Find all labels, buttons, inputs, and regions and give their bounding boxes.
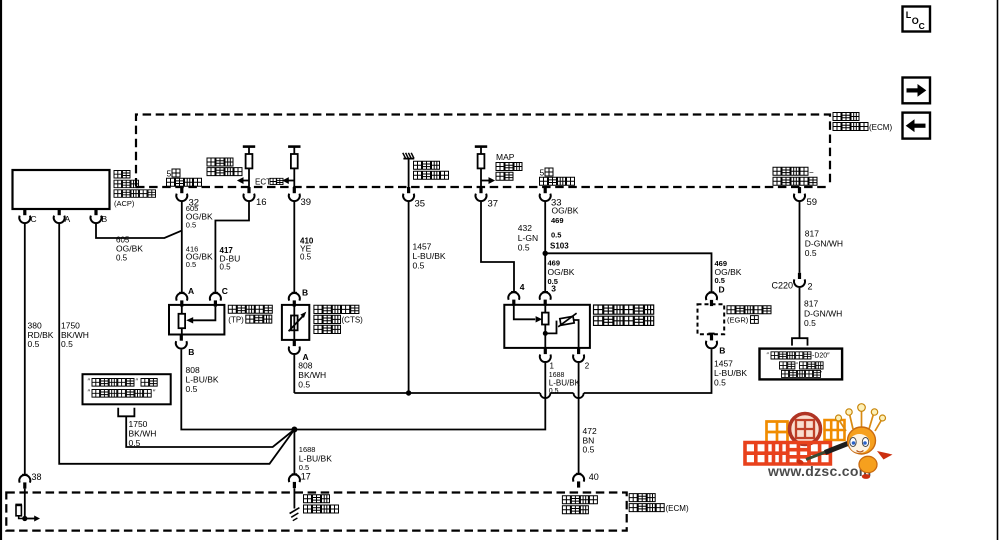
- CTS terminal B: [289, 288, 308, 307]
- MAP pressure resistor: [542, 306, 549, 348]
- svg-text:B: B: [302, 288, 308, 298]
- watermark dzsc logo: [745, 404, 893, 479]
- svg-text:808: 808: [298, 361, 312, 371]
- svg-text:0.5: 0.5: [714, 378, 726, 388]
- label 817 D-GN/WH 0.5 (lower): [804, 299, 842, 329]
- TP wiper arrow: [186, 307, 215, 324]
- ECM module bottom dashed boundary: [6, 493, 626, 531]
- svg-text:0.5: 0.5: [300, 253, 312, 262]
- svg-text:16: 16: [256, 197, 267, 208]
- TP terminal A: [176, 286, 194, 307]
- label 605 OG/BK 0.5 (upper): [186, 204, 213, 229]
- MAP internal node: [543, 331, 548, 336]
- svg-text:A: A: [188, 286, 194, 296]
- wire 1457 L-BU/BK from terminal 35: [408, 202, 410, 393]
- label combination meter text: [88, 379, 158, 398]
- svg-text:OG/BK: OG/BK: [548, 267, 575, 277]
- bracket under box: [118, 408, 134, 417]
- svg-text:0.5: 0.5: [805, 248, 817, 258]
- svg-text:0.5: 0.5: [551, 231, 561, 240]
- ECM terminal 40: [573, 472, 599, 488]
- svg-text:0.5: 0.5: [116, 254, 128, 263]
- label 5V reference at 33: [540, 168, 575, 186]
- svg-text:(TP): (TP): [228, 315, 244, 324]
- svg-text:17: 17: [301, 472, 311, 482]
- wire hop over terminal 1: [540, 393, 550, 398]
- ECM terminal 17: [289, 472, 311, 489]
- wire 808 BK/WH + 1457 low reference bus: [294, 392, 540, 394]
- CTS terminal A: [289, 340, 309, 362]
- svg-text:www.dzsc.com: www.dzsc.com: [767, 463, 871, 479]
- manual transmission reference box: [760, 349, 843, 380]
- label 817 D-GN/WH 0.5 (upper): [805, 229, 843, 259]
- label 1688 L-BU/BK 0.5 (17): [299, 445, 332, 472]
- ACP terminal C: [19, 209, 36, 224]
- label 417 D-BU 0.5: [220, 246, 241, 272]
- label 469 OG/BK 0.5 below S103: [548, 259, 575, 287]
- IAT thermistor: [545, 313, 578, 348]
- ECM interface dashed line: [136, 186, 828, 188]
- svg-text:0.5: 0.5: [28, 339, 40, 349]
- arrow TP position signal: [237, 177, 249, 184]
- svg-text:C: C: [31, 214, 37, 224]
- svg-text:(ECM): (ECM): [869, 123, 892, 132]
- svg-text:0.5: 0.5: [804, 318, 816, 328]
- label ECM (top): [833, 113, 892, 133]
- label CTS sensor: [314, 305, 363, 333]
- label 1457 L-BU/BK 0.5: [413, 242, 446, 271]
- svg-text:ECT: ECT: [255, 178, 271, 187]
- internal arrow at 38: [25, 516, 40, 522]
- label 605 OG/BK 0.5: [116, 236, 143, 263]
- svg-text:0.5: 0.5: [129, 438, 141, 448]
- wire below 38: [24, 489, 26, 519]
- ECM terminal 35 connector: [403, 187, 425, 210]
- svg-text:L-BU/BK: L-BU/BK: [714, 368, 747, 378]
- MAP terminal 3: [540, 284, 557, 306]
- wire 1457 L-BU/BK from EGR B: [584, 349, 712, 393]
- ground below 17: [290, 488, 300, 521]
- arrow MAP sensor signal: [481, 177, 495, 184]
- splice S103: [543, 251, 548, 256]
- LOC navigation box: [903, 7, 931, 32]
- svg-text:−: −: [809, 168, 814, 177]
- svg-text:A: A: [65, 214, 71, 224]
- wire 605 OG/BK from ACP B: [96, 224, 182, 238]
- wire 1750 BK/WH from ACP A: [59, 224, 294, 464]
- label MAP/IAT sensor: [594, 305, 654, 325]
- engine coolant temperature (CTS) sensor box: [282, 305, 309, 340]
- svg-text:1: 1: [550, 362, 555, 371]
- svg-text:MAP: MAP: [496, 152, 515, 162]
- svg-text:0.5: 0.5: [220, 263, 232, 272]
- MAP terminal 1: [540, 348, 555, 371]
- svg-text:4: 4: [520, 282, 525, 292]
- low reference comb symbol at 35: [403, 153, 414, 187]
- svg-text:0.5: 0.5: [186, 260, 196, 269]
- label TP position signal: [207, 158, 242, 176]
- svg-text:808: 808: [186, 365, 200, 375]
- bracket above transmission box: [792, 338, 808, 345]
- svg-text:0.5: 0.5: [186, 384, 198, 394]
- label 1750 BK/WH 0.5: [61, 321, 89, 350]
- wire 472 BN from MAP terminal 2: [578, 363, 580, 474]
- ACP terminal A: [54, 209, 71, 224]
- TP terminal C: [210, 286, 228, 307]
- label 5V reference at 32: [167, 169, 202, 187]
- label 380 RD/BK 0.5: [28, 321, 54, 350]
- wire 808 BK/WH from CTS A: [293, 355, 295, 393]
- label EGR valve: [727, 306, 771, 325]
- throttle position (TP) sensor box: [169, 305, 224, 335]
- ACP terminal B: [91, 209, 108, 224]
- svg-text:1750: 1750: [129, 419, 148, 429]
- svg-text:L-BU/BK: L-BU/BK: [549, 378, 581, 387]
- svg-text:-D20″: -D20″: [812, 353, 830, 360]
- svg-text:5: 5: [540, 168, 545, 178]
- forward arrow box: [903, 78, 931, 104]
- svg-text:0.5: 0.5: [583, 445, 595, 455]
- svg-text:(ACP): (ACP): [114, 199, 135, 208]
- svg-text:817: 817: [805, 229, 819, 239]
- wire 817 D-GN/WH from terminal 59: [799, 202, 801, 273]
- svg-text:0.5: 0.5: [61, 339, 73, 349]
- wire hop over terminal 2: [574, 393, 584, 398]
- A/C refrigerant pressure sensor (ACP) box: [13, 170, 110, 209]
- label low reference (17): [304, 495, 339, 513]
- ECM terminal 59 connector: [794, 187, 817, 208]
- svg-text:L-BU/BK: L-BU/BK: [413, 251, 446, 261]
- MAP terminal 4: [508, 282, 524, 306]
- label 410 YE 0.5: [300, 237, 314, 262]
- svg-text:B: B: [719, 346, 725, 356]
- svg-text:0.5: 0.5: [186, 220, 196, 229]
- wire segment between hops: [550, 392, 573, 394]
- label 1457 L-BU/BK 0.5 (EGR): [714, 359, 747, 388]
- label 469 OG/BK 0.5 (EGR branch): [715, 259, 742, 285]
- ECM terminal 16 connector: [244, 187, 267, 208]
- wire 808 L-BU/BK from TP B: [181, 350, 294, 430]
- ECM terminal 37 connector: [476, 187, 499, 210]
- wire 605/416 OG/BK from terminal 32: [181, 202, 183, 293]
- wire 1750 BK/WH from meter: [126, 416, 294, 447]
- label intake air temperature sensor: [562, 496, 597, 514]
- label ECM (bottom): [629, 494, 689, 513]
- EGR terminal D: [706, 285, 725, 307]
- ECM module top dashed boundary: [136, 115, 830, 187]
- label TP sensor: [228, 305, 272, 324]
- svg-text:5: 5: [167, 169, 172, 179]
- svg-text:C: C: [919, 21, 925, 31]
- svg-text:(CTS): (CTS): [342, 316, 364, 325]
- svg-text:S103: S103: [550, 242, 569, 251]
- svg-text:OG/BK: OG/BK: [552, 206, 579, 216]
- svg-text:38: 38: [32, 472, 42, 482]
- svg-text:C: C: [222, 286, 228, 296]
- CTS thermistor: [289, 306, 307, 340]
- label ACP text: [114, 171, 156, 209]
- ECM terminal 38: [19, 472, 41, 489]
- MAP internal arrow: [514, 306, 542, 323]
- svg-text:59: 59: [807, 197, 818, 208]
- connector C220: [772, 273, 813, 292]
- svg-text:0.5: 0.5: [518, 243, 530, 253]
- label 808 L-BU/BK 0.5: [186, 365, 219, 394]
- svg-text:469: 469: [551, 216, 564, 225]
- MAP terminal 2: [573, 348, 590, 371]
- svg-text:3: 3: [551, 284, 556, 294]
- svg-text:40: 40: [589, 472, 599, 482]
- svg-text:D: D: [719, 285, 725, 295]
- wire 417 D-BU from terminal 16: [215, 202, 249, 293]
- wire 817 D-GN/WH below C220: [799, 288, 801, 338]
- combination meter reference box: [83, 374, 171, 404]
- label manual transmission text: [767, 352, 831, 378]
- svg-text:2: 2: [808, 282, 813, 292]
- label 808 BK/WH 0.5: [298, 361, 326, 390]
- svg-text:OG/BK: OG/BK: [116, 244, 143, 254]
- internal resistor at 38: [15, 504, 24, 518]
- EGR valve dashed box: [698, 304, 725, 334]
- EGR terminal B: [706, 334, 725, 356]
- svg-text:D-GN/WH: D-GN/WH: [804, 308, 842, 318]
- svg-text:39: 39: [301, 197, 312, 208]
- label vehicle speed signal - manual transmission: [773, 167, 817, 185]
- label OG/BK 469 0.5 S103: [550, 206, 579, 251]
- svg-text:B: B: [188, 347, 194, 357]
- ECM terminal 32 connector: [176, 187, 199, 209]
- wire 380 RD/BK from ACP C: [24, 224, 26, 475]
- junction dot at wire 35: [406, 390, 411, 395]
- resistor R pull-up 39: [288, 147, 300, 187]
- label 1750 BK/WH 0.5 (meter): [129, 419, 157, 448]
- label 472 BN 0.5: [583, 426, 597, 455]
- svg-text:35: 35: [415, 199, 426, 210]
- ECM terminal 39 connector: [289, 187, 311, 208]
- resistor R pull-up 16: [243, 147, 255, 187]
- resistor R pull-up 37: [475, 147, 487, 187]
- wire 469 OG/BK branch from S103 to EGR: [545, 253, 711, 292]
- svg-text:0.5: 0.5: [413, 261, 425, 271]
- manifold pressure & temperature sensor box: [504, 305, 590, 348]
- back arrow box: [903, 113, 931, 139]
- junction dot low reference: [291, 427, 297, 433]
- svg-text:L-BU/BK: L-BU/BK: [299, 453, 332, 463]
- label 416 OG/BK 0.5 (lower): [186, 244, 213, 269]
- svg-text:2: 2: [585, 362, 590, 371]
- svg-text:D-GN/WH: D-GN/WH: [805, 238, 843, 248]
- label 432 L-GN 0.5: [518, 223, 538, 253]
- label ECT signal: [255, 178, 283, 187]
- label MAP sensor signal: [496, 152, 522, 180]
- arrow ECT signal: [282, 177, 294, 184]
- wire 432 L-GN from terminal 37: [481, 202, 514, 292]
- wire 469 OG/BK from terminal 33: [544, 202, 546, 292]
- svg-text:(ECM): (ECM): [666, 504, 689, 513]
- wire 1688 L-BU/BK to terminal 17: [293, 430, 295, 475]
- svg-text:C220: C220: [772, 281, 794, 291]
- label 1688 L-BU/BK 0.5 (terminal 1): [549, 372, 581, 395]
- svg-text:1457: 1457: [714, 359, 733, 369]
- svg-text:37: 37: [488, 199, 499, 210]
- svg-text:432: 432: [518, 223, 532, 233]
- svg-text:B: B: [102, 214, 108, 224]
- svg-text:0.5: 0.5: [298, 379, 310, 389]
- TP terminal B: [176, 335, 195, 358]
- wire 410 YE from terminal 39: [293, 202, 295, 293]
- TP potentiometer: [179, 306, 186, 335]
- wire 1688 L-BU/BK from MAP terminal 1: [294, 363, 545, 430]
- ECM terminal 33 connector: [540, 187, 562, 209]
- svg-text:(EGR): (EGR): [727, 316, 749, 325]
- svg-text:817: 817: [804, 299, 818, 309]
- svg-text:L-GN: L-GN: [518, 233, 538, 243]
- svg-text:1457: 1457: [413, 242, 432, 252]
- label low reference at 35: [414, 161, 449, 179]
- junction dot at 38: [22, 516, 27, 521]
